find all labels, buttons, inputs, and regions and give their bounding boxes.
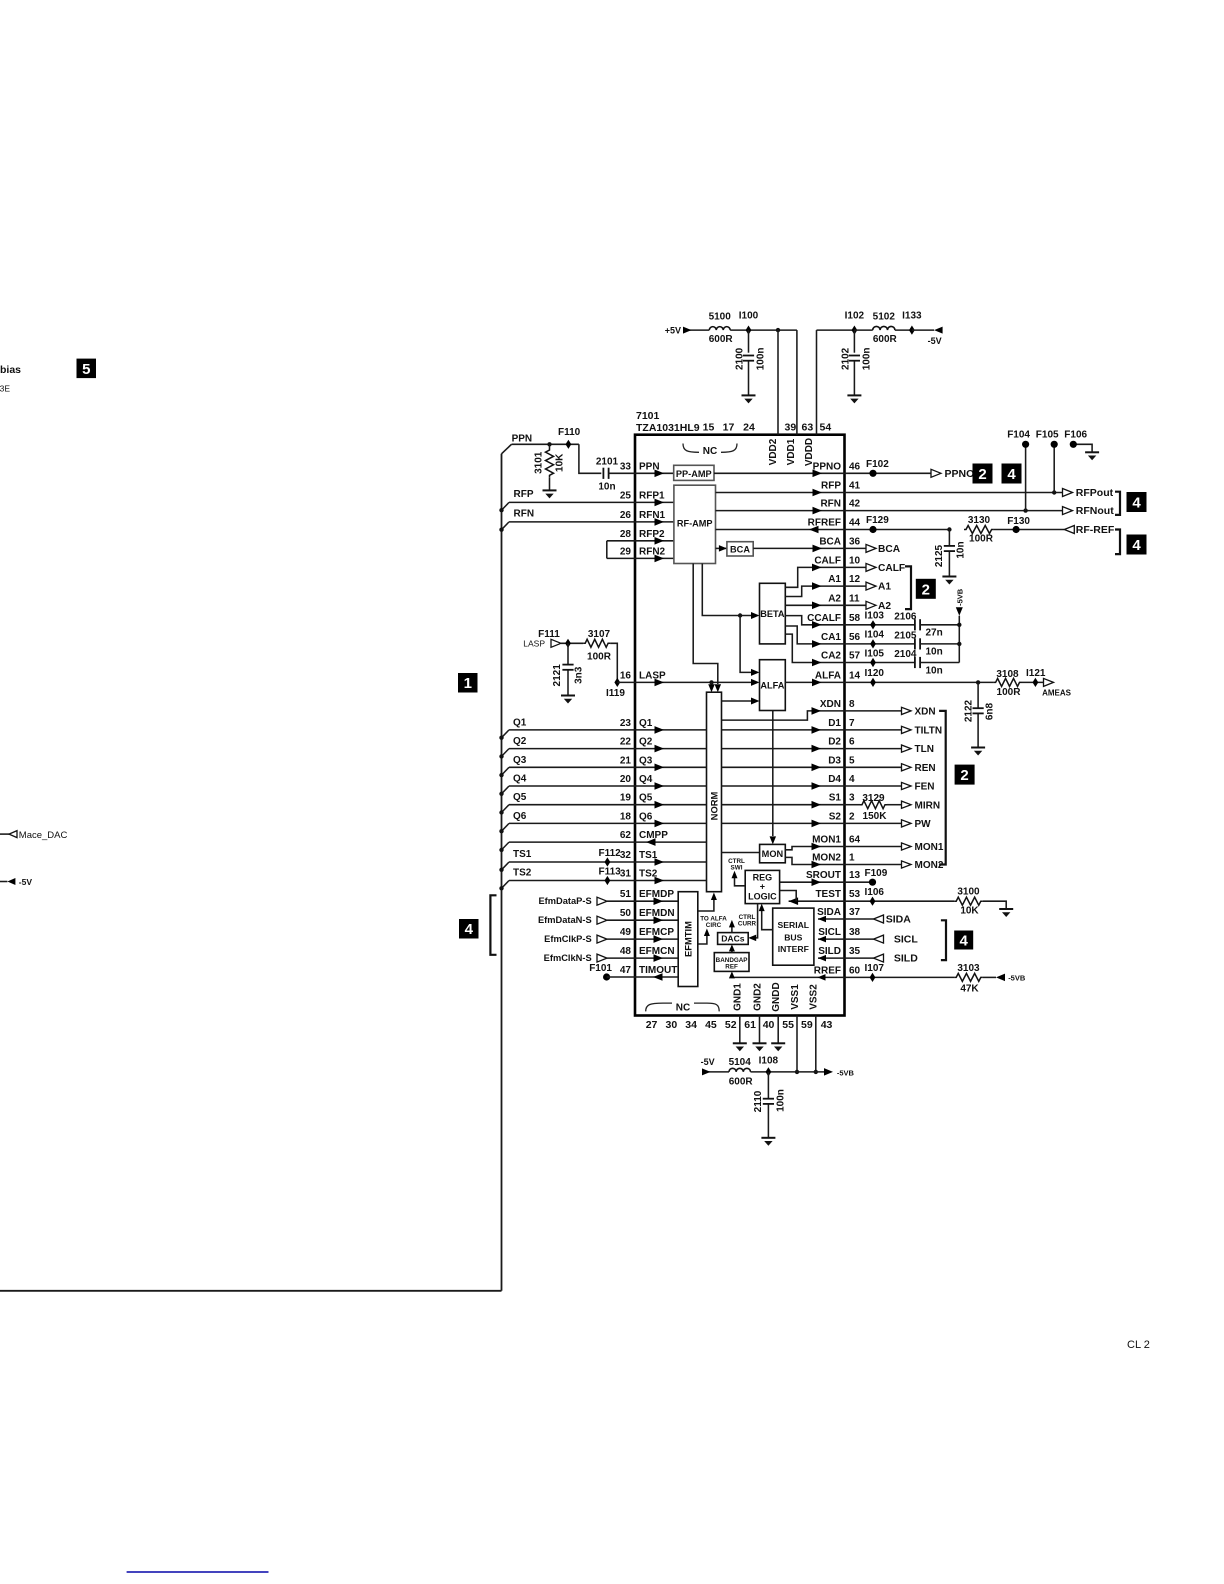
svg-text:CCALF: CCALF <box>807 613 841 624</box>
ground for 2102 <box>847 395 861 403</box>
label TS2 <box>513 868 532 879</box>
wire CTRL CURR arrow <box>729 914 757 932</box>
svg-text:10n: 10n <box>956 541 967 558</box>
node I108 <box>759 1056 779 1077</box>
pin 36 BCA <box>819 536 860 547</box>
svg-text:4: 4 <box>465 921 474 938</box>
svg-text:I103: I103 <box>865 611 885 622</box>
svg-text:2100: 2100 <box>735 347 746 370</box>
svg-text:D2: D2 <box>828 737 841 748</box>
junction F105 tap <box>1052 490 1056 494</box>
svg-text:F111: F111 <box>538 629 560 640</box>
svg-text:150K: 150K <box>863 811 888 822</box>
svg-text:1: 1 <box>464 675 472 692</box>
top NC bracket pins 15 17 24 <box>683 444 737 458</box>
port RFPout <box>1063 487 1114 499</box>
svg-text:RFP2: RFP2 <box>639 529 665 540</box>
svg-text:FEN: FEN <box>915 782 935 793</box>
svg-text:2106: 2106 <box>894 611 917 622</box>
svg-text:F129: F129 <box>866 515 889 526</box>
svg-text:PPNO: PPNO <box>945 468 975 480</box>
node I121 <box>1022 668 1046 687</box>
svg-text:NORM: NORM <box>709 791 720 820</box>
svg-text:62: 62 <box>620 830 632 841</box>
svg-text:60: 60 <box>849 965 861 976</box>
svg-text:2122: 2122 <box>964 699 975 722</box>
wire EfmDataP-S to EFMTIM <box>607 897 678 905</box>
svg-text:4: 4 <box>960 932 969 949</box>
svg-text:CA1: CA1 <box>821 632 841 643</box>
svg-text:5104: 5104 <box>729 1057 752 1068</box>
svg-text:50: 50 <box>620 908 632 919</box>
pin name VDD2 <box>768 438 779 465</box>
port BCA <box>845 544 901 555</box>
svg-text:RF-REF: RF-REF <box>1076 524 1115 536</box>
svg-text:100n: 100n <box>776 1089 787 1112</box>
svg-text:Q3: Q3 <box>639 755 653 766</box>
svg-text:RFP: RFP <box>821 481 841 492</box>
ground for 3101 <box>543 490 557 498</box>
svg-text:5: 5 <box>849 755 855 766</box>
label RFP <box>514 489 534 500</box>
svg-text:SERIAL: SERIAL <box>778 920 810 930</box>
block BANDGAP REF <box>714 953 749 972</box>
pin 29 RFN2 <box>620 546 666 557</box>
wire pin 54 VDDD <box>817 330 855 435</box>
port A2 <box>845 601 892 612</box>
tag 1 <box>458 673 478 693</box>
svg-text:48: 48 <box>620 946 632 957</box>
svg-text:54: 54 <box>820 422 832 434</box>
inductor 5104 600R <box>729 1057 754 1088</box>
svg-text:49: 49 <box>620 927 632 938</box>
pin 64 MON1 <box>812 835 860 846</box>
junction 2122 <box>976 680 980 684</box>
bracket CALF A1 A2 <box>905 566 911 609</box>
node I104 <box>845 630 915 649</box>
pin 7 D1 <box>828 718 855 729</box>
svg-text:F102: F102 <box>866 459 889 470</box>
svg-text:3107: 3107 <box>588 629 611 640</box>
svg-text:-5V: -5V <box>19 877 33 887</box>
svg-text:XDN: XDN <box>915 707 936 718</box>
node F105 <box>1036 429 1059 492</box>
svg-text:3n3: 3n3 <box>574 666 585 684</box>
svg-text:MON: MON <box>762 849 784 859</box>
pin number 55 <box>782 1019 794 1031</box>
pin number 39 <box>785 422 797 434</box>
pin 8 XDN <box>820 699 855 710</box>
label V3E <box>0 383 10 393</box>
wire TIMOUT to F101 <box>607 973 679 981</box>
svg-text:Q4: Q4 <box>513 774 527 785</box>
port LASP <box>523 639 561 649</box>
svg-text:2105: 2105 <box>894 630 917 641</box>
block REG LOGIC <box>745 870 779 903</box>
bracket XDN to MON2 group <box>939 711 946 865</box>
svg-text:I108: I108 <box>759 1056 779 1067</box>
wire pin 38 SICL <box>818 936 845 943</box>
svg-text:I105: I105 <box>865 649 885 660</box>
wire RF-AMP to pin 42 RFN <box>716 507 845 515</box>
block ALFA <box>760 660 786 711</box>
node I107 <box>845 963 955 982</box>
wire BETA out A2 <box>785 602 844 610</box>
wire pin 40 GNDD to ground <box>777 1016 779 1044</box>
svg-text:LASP: LASP <box>639 670 666 681</box>
+5V supply arrow <box>665 326 710 336</box>
tag 4 RFout group <box>1127 492 1147 512</box>
resistor 3101 10K <box>534 444 566 490</box>
svg-text:63: 63 <box>802 422 814 434</box>
pin 51 EFMDP <box>620 889 674 900</box>
svg-text:RFREF: RFREF <box>808 518 841 529</box>
svg-text:17: 17 <box>723 422 735 434</box>
svg-text:F104: F104 <box>1007 429 1030 440</box>
svg-text:25: 25 <box>620 490 632 501</box>
svg-text:39: 39 <box>785 422 797 434</box>
svg-text:-5VB: -5VB <box>956 588 965 606</box>
svg-text:Q1: Q1 <box>513 717 527 728</box>
svg-text:2: 2 <box>960 767 968 784</box>
svg-text:6: 6 <box>849 737 855 748</box>
svg-text:ALFA: ALFA <box>760 681 784 691</box>
port SICL <box>845 934 919 946</box>
node F129 <box>866 515 889 533</box>
svg-text:GNDD: GNDD <box>771 982 782 1011</box>
wire Q4 to NORM <box>509 782 707 790</box>
svg-text:Q2: Q2 <box>513 736 527 747</box>
svg-text:F110: F110 <box>558 427 581 438</box>
svg-text:RFP1: RFP1 <box>639 490 665 501</box>
port AMEAS <box>1042 678 1072 697</box>
svg-text:10n: 10n <box>926 666 943 677</box>
svg-text:43: 43 <box>821 1019 833 1031</box>
svg-text:8: 8 <box>849 699 855 710</box>
svg-text:1: 1 <box>849 853 855 864</box>
pin number 43 <box>821 1019 833 1031</box>
svg-text:40: 40 <box>763 1019 775 1031</box>
svg-text:SWI: SWI <box>731 865 743 872</box>
pin number 24 <box>743 422 755 434</box>
pin name VDD1 <box>786 438 797 465</box>
svg-text:31: 31 <box>620 869 632 880</box>
block NORM <box>707 692 722 892</box>
svg-text:58: 58 <box>849 613 861 624</box>
svg-text:TS2: TS2 <box>513 868 532 879</box>
svg-text:2102: 2102 <box>841 347 852 370</box>
wire bus tap Q1 <box>499 730 509 740</box>
wire pin33 to PP-AMP <box>635 470 674 478</box>
svg-text:CL 2: CL 2 <box>1127 1339 1150 1351</box>
port SILD <box>845 953 919 965</box>
wire RF-AMP output to BETA <box>702 564 759 620</box>
svg-text:38: 38 <box>849 927 861 938</box>
capacitor 2122 6n8 <box>964 682 996 747</box>
svg-text:2125: 2125 <box>934 544 945 567</box>
svg-text:19: 19 <box>620 793 632 804</box>
svg-text:VSS1: VSS1 <box>790 984 801 1010</box>
svg-text:+: + <box>760 881 765 891</box>
-5V supply arrow bottom <box>701 1057 729 1075</box>
pin number 54 <box>820 422 832 434</box>
svg-text:7101: 7101 <box>636 410 660 422</box>
svg-text:D1: D1 <box>828 718 841 729</box>
wire bus tap RFN <box>499 522 509 532</box>
wire SERIAL to REG <box>759 904 773 930</box>
svg-text:I106: I106 <box>865 887 885 898</box>
pin 22 Q2 <box>620 737 653 748</box>
wire NORM out D4 <box>722 782 845 790</box>
svg-text:11: 11 <box>849 593 860 604</box>
wire LASP junction into NORM top <box>708 682 715 692</box>
pin 60 RREF <box>814 965 861 976</box>
svg-text:RFN1: RFN1 <box>639 510 666 521</box>
wire NORM out D2 <box>722 745 845 753</box>
svg-text:BUS: BUS <box>784 932 802 942</box>
svg-text:30: 30 <box>666 1019 678 1031</box>
node I133 <box>902 310 922 334</box>
svg-text:24: 24 <box>743 422 755 434</box>
svg-text:TS1: TS1 <box>513 849 532 860</box>
node I100 <box>739 310 759 334</box>
block EFMTIM <box>678 892 698 987</box>
wire ALFA to pin 14 <box>785 679 844 687</box>
node F110 <box>558 427 581 449</box>
wire BETA out CCALF <box>785 616 844 629</box>
wire EfmClkN-S to EFMTIM <box>607 954 678 962</box>
wire 5104 to -5VB <box>751 1071 825 1073</box>
svg-text:TS1: TS1 <box>639 850 658 861</box>
pin 14 ALFA <box>815 670 861 681</box>
port XDN <box>845 707 936 718</box>
svg-text:10K: 10K <box>555 453 566 472</box>
wire bus tap CMPP <box>499 842 509 852</box>
svg-text:RFN2: RFN2 <box>639 546 666 557</box>
pin 57 CA2 <box>821 651 861 662</box>
svg-text:41: 41 <box>849 481 861 492</box>
wire pin 55 VSS1 to -5VB rail <box>796 1016 798 1072</box>
resistor 3100 10K <box>954 887 1006 917</box>
svg-text:MON1: MON1 <box>915 842 944 853</box>
pin 18 Q6 <box>620 811 653 822</box>
wire pin 53 TEST to REG <box>780 891 845 906</box>
pin 12 A1 <box>828 574 860 585</box>
-5VB arrow bottom <box>824 1068 855 1077</box>
wire BETA out CALF <box>785 564 844 588</box>
wire bus tap Q2 <box>499 749 509 759</box>
wire BCA to pin 36 <box>753 545 844 553</box>
junction VSS1 rail <box>795 1070 799 1074</box>
wire RFP to pin 25 <box>509 499 674 507</box>
node F113 <box>599 867 622 885</box>
block MON <box>760 844 786 862</box>
block BETA <box>760 583 786 644</box>
svg-text:20: 20 <box>620 774 632 785</box>
node I102 <box>845 310 865 334</box>
svg-text:EFMCP: EFMCP <box>639 927 674 938</box>
pin 33 PPN <box>620 461 660 472</box>
svg-text:14: 14 <box>849 670 861 681</box>
wire Q2 to NORM <box>509 745 707 753</box>
svg-text:CA2: CA2 <box>821 651 841 662</box>
ground GND1 <box>733 1043 747 1051</box>
inductor 5102 600R <box>873 312 898 345</box>
node I103 <box>845 611 915 630</box>
port A1 <box>845 582 892 593</box>
wire pin 63 VDD1 <box>796 330 798 435</box>
pin 11 A2 <box>828 593 860 604</box>
svg-text:NC: NC <box>676 1003 690 1014</box>
port EfmDataP-S <box>538 896 607 906</box>
label RFN <box>514 509 535 520</box>
port MIRN <box>887 800 940 811</box>
port SIDA <box>845 914 912 926</box>
svg-text:PPN: PPN <box>512 434 533 445</box>
svg-text:18: 18 <box>620 811 632 822</box>
svg-text:ALFA: ALFA <box>815 670 841 681</box>
svg-text:REN: REN <box>915 763 936 774</box>
svg-text:28: 28 <box>620 529 632 540</box>
svg-text:2: 2 <box>849 811 855 822</box>
wire pin 44 to RF-REF <box>845 529 950 531</box>
svg-text:TIMOUT: TIMOUT <box>639 965 677 976</box>
svg-text:SICL: SICL <box>818 927 841 938</box>
svg-text:29: 29 <box>620 546 632 557</box>
ground for 2110 <box>761 1138 775 1146</box>
port REN <box>845 763 936 774</box>
pin 62 CMPP <box>620 830 668 841</box>
wire NORM to ALFA <box>722 698 760 705</box>
label Q4 <box>513 774 527 785</box>
svg-text:CMPP: CMPP <box>639 830 668 841</box>
IC 7101 TZA1031HL9 outline <box>635 435 845 1016</box>
svg-text:5102: 5102 <box>873 312 896 323</box>
svg-text:SIDA: SIDA <box>886 914 912 926</box>
wire EfmClkP-S to EFMTIM <box>607 935 678 943</box>
resistor 3103 47K <box>954 963 996 994</box>
svg-text:5100: 5100 <box>709 312 732 323</box>
svg-text:46: 46 <box>849 461 861 472</box>
pin 4 D4 <box>828 774 855 785</box>
pin number 59 <box>801 1019 813 1031</box>
tag 2 PPNO <box>973 464 993 484</box>
wire NORM out S2 <box>722 820 845 828</box>
svg-text:15: 15 <box>703 422 715 434</box>
pin name GND2 <box>752 983 763 1011</box>
svg-text:36: 36 <box>849 536 861 547</box>
svg-text:BETA: BETA <box>760 609 785 619</box>
label CL 2 <box>1127 1339 1150 1351</box>
wire RFN to pin 26 <box>509 518 674 526</box>
wire TS2 to NORM <box>509 877 707 885</box>
label PPN <box>512 434 533 445</box>
svg-text:21: 21 <box>620 755 632 766</box>
block BCA <box>727 542 753 556</box>
port EfmClkN-S <box>544 953 607 963</box>
tag 2 CALF group <box>916 579 936 599</box>
ground GNDD <box>771 1043 785 1051</box>
svg-text:4: 4 <box>1132 495 1141 512</box>
port EfmDataN-S <box>538 915 607 925</box>
svg-text:SIDA: SIDA <box>817 907 841 918</box>
svg-text:EfmClkN-S: EfmClkN-S <box>544 953 592 963</box>
wire RF-AMP output to NORM <box>693 564 721 693</box>
svg-text:33: 33 <box>620 461 632 472</box>
svg-text:MON2: MON2 <box>812 853 841 864</box>
pin 6 D2 <box>828 737 855 748</box>
svg-text:27n: 27n <box>926 628 943 639</box>
pin 56 CA1 <box>821 632 861 643</box>
wire ALFA to MON <box>770 711 777 845</box>
svg-text:MON1: MON1 <box>812 835 841 846</box>
svg-text:3108: 3108 <box>996 669 1019 680</box>
label Q1 <box>513 717 527 728</box>
node F130 <box>1007 516 1030 533</box>
wire TS1 to NORM <box>509 858 707 866</box>
svg-text:F112: F112 <box>599 848 622 859</box>
pin 21 Q3 <box>620 755 653 766</box>
svg-text:3130: 3130 <box>968 515 991 526</box>
svg-text:BCA: BCA <box>730 544 750 554</box>
capacitor 2106 27n <box>894 611 959 638</box>
pin number 61 <box>744 1019 756 1031</box>
svg-text:4: 4 <box>849 774 855 785</box>
svg-text:TILTN: TILTN <box>915 726 943 737</box>
bracket RFPout RFNout <box>1115 492 1120 515</box>
capacitor 2102 100n <box>841 330 873 395</box>
op-amp PP-AMP <box>674 465 714 480</box>
junction F104 tap <box>1023 508 1027 512</box>
wire pin 44 RFREF to RF-AMP <box>716 526 845 534</box>
svg-text:Vbias: Vbias <box>0 364 21 376</box>
svg-text:BCA: BCA <box>878 544 901 555</box>
wire EfmDataN-S to EFMTIM <box>607 916 678 924</box>
node I119 <box>606 678 625 699</box>
svg-text:2: 2 <box>978 466 986 483</box>
port PPNO <box>931 468 974 480</box>
wire pin 35 SILD <box>818 955 845 962</box>
svg-text:5: 5 <box>82 361 90 378</box>
svg-text:-5V: -5V <box>701 1057 715 1067</box>
wire Q5 to NORM <box>509 801 707 809</box>
wire +5V rail to VDD pins <box>730 329 797 331</box>
label TS1 <box>513 849 532 860</box>
svg-text:SICL: SICL <box>894 934 919 946</box>
svg-text:32: 32 <box>620 850 632 861</box>
wire bus tap TS2 <box>499 881 509 891</box>
pin number 52 <box>725 1019 737 1031</box>
svg-text:TLN: TLN <box>915 744 934 755</box>
wire BANDGAP to DACs <box>729 944 735 952</box>
junction 2125 <box>947 527 951 531</box>
svg-text:34: 34 <box>685 1019 697 1031</box>
svg-text:35: 35 <box>849 946 861 957</box>
svg-text:10K: 10K <box>960 906 979 917</box>
port TILTN <box>845 726 943 737</box>
svg-text:Q6: Q6 <box>639 811 653 822</box>
wire MON to pin 64 MON1 <box>785 843 844 851</box>
svg-text:600R: 600R <box>873 334 898 345</box>
wire EFMTIM to ALFA circuit arrow <box>698 915 727 944</box>
wire PPN net <box>512 444 602 473</box>
port RFNout <box>1063 505 1115 517</box>
svg-text:D4: D4 <box>828 774 841 785</box>
svg-text:6n8: 6n8 <box>985 702 996 720</box>
pin 31 TS2 <box>620 869 658 880</box>
pin 46 PPNO <box>813 461 861 472</box>
svg-text:RREF: RREF <box>814 965 841 976</box>
